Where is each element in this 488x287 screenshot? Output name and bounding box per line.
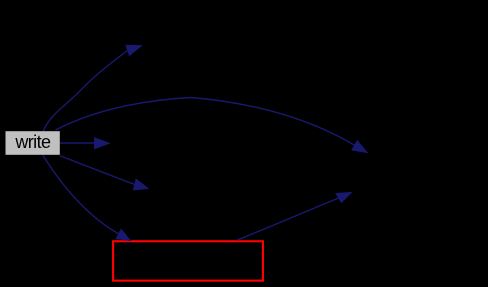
node write (gray box) (6, 131, 60, 155)
red-bordered node (truncated call graph node) (113, 241, 263, 280)
arrowhead red node (116, 229, 131, 241)
arrowhead callee1 (126, 45, 142, 56)
arrowhead callee4 (133, 179, 148, 190)
edge write -> callee2 (long arc to right node) (56, 98, 355, 146)
svg-text:write: write (14, 132, 51, 152)
edge write -> callee3 (short horizontal) (60, 142, 94, 144)
edge write -> callee4 (diagonal) (60, 156, 135, 185)
arrowhead callee3 (94, 138, 110, 149)
edge write -> red node (curve down) (43, 155, 119, 234)
edge red node -> callee5 (237, 198, 338, 240)
arrowhead callee5 (336, 192, 352, 202)
edge write -> callee1 (curve up to top node) (43, 51, 127, 132)
arrowhead callee2 (352, 140, 368, 152)
